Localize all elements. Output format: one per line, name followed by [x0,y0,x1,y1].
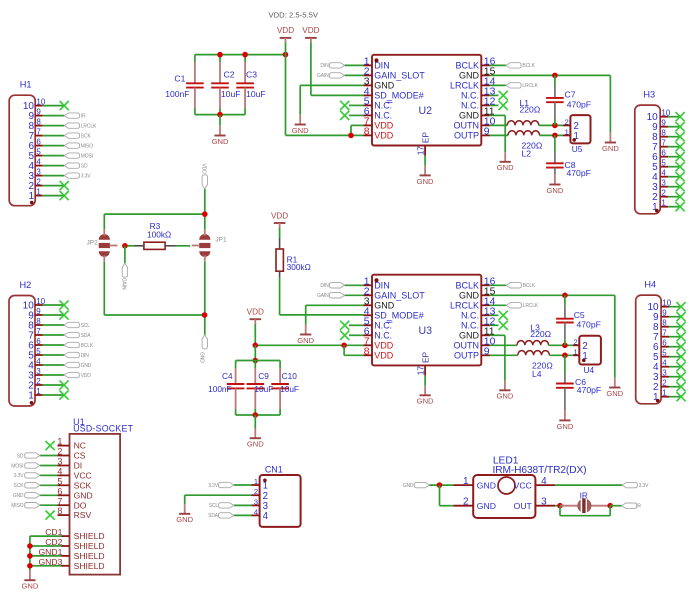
svg-text:VDD: 2.5-5.5V: VDD: 2.5-5.5V [269,10,319,19]
svg-text:6: 6 [36,138,41,147]
svg-text:GAIN: GAIN [317,73,329,79]
svg-text:DIN: DIN [374,61,390,71]
svg-text:100nF: 100nF [165,89,189,99]
svg-text:5: 5 [36,148,41,157]
svg-text:4: 4 [662,359,667,368]
svg-text:4: 4 [263,511,269,522]
svg-text:3: 3 [662,369,667,378]
svg-text:300kΩ: 300kΩ [287,262,311,272]
svg-text:1: 1 [574,347,578,356]
svg-text:DI: DI [74,461,83,471]
svg-text:6: 6 [661,149,666,158]
svg-text:GND: GND [74,490,93,500]
svg-text:220Ω: 220Ω [520,105,541,115]
svg-text:8: 8 [364,126,370,137]
svg-text:7: 7 [57,496,62,506]
svg-text:6: 6 [662,339,667,348]
svg-text:BCLK: BCLK [455,281,479,291]
svg-text:2: 2 [574,337,578,346]
svg-text:GAIN_SLOT: GAIN_SLOT [374,291,425,301]
svg-text:4: 4 [57,467,62,477]
svg-text:BCLK: BCLK [81,343,94,349]
svg-text:U2: U2 [419,105,433,117]
svg-text:9: 9 [36,108,41,117]
svg-text:4: 4 [36,357,41,366]
svg-text:SDA: SDA [208,513,219,519]
svg-text:470pF: 470pF [567,99,591,109]
svg-text:GND: GND [496,392,513,401]
svg-text:SCL: SCL [81,323,91,329]
svg-text:GND: GND [374,81,395,91]
svg-text:GND1: GND1 [39,547,63,557]
svg-text:SD_MODE#: SD_MODE# [374,91,424,101]
svg-text:7: 7 [36,128,41,137]
svg-text:OUTN: OUTN [454,341,480,351]
svg-text:NC: NC [74,441,86,451]
svg-text:4: 4 [36,158,41,167]
svg-text:SHIELD: SHIELD [74,551,105,561]
svg-text:GND: GND [13,493,24,499]
svg-text:8: 8 [57,506,62,516]
svg-text:GND3: GND3 [39,557,63,567]
svg-text:C9: C9 [258,371,269,381]
svg-text:100kΩ: 100kΩ [147,229,171,239]
svg-text:GND: GND [459,71,480,81]
svg-text:SCL: SCL [209,503,219,509]
svg-text:C2: C2 [224,70,235,80]
svg-text:N.C.: N.C. [374,331,392,341]
svg-text:N.C.: N.C. [461,101,479,111]
svg-text:7: 7 [662,329,667,338]
svg-text:VDD: VDD [247,308,264,317]
svg-text:GND: GND [606,389,623,398]
svg-text:SCK: SCK [14,483,25,489]
svg-text:9: 9 [484,126,490,137]
svg-text:10uF: 10uF [221,89,241,99]
svg-text:H1: H1 [20,80,32,90]
svg-text:VCC: VCC [74,471,92,481]
svg-text:BCLK: BCLK [455,61,479,71]
svg-text:C3: C3 [246,70,257,80]
svg-text:GND: GND [477,480,496,490]
svg-text:2: 2 [36,377,41,386]
svg-text:GND: GND [374,301,395,311]
svg-text:3: 3 [36,168,41,177]
svg-text:1: 1 [254,477,258,486]
svg-text:220Ω: 220Ω [530,329,551,339]
svg-text:RSV: RSV [74,510,92,520]
svg-text:OUTN: OUTN [454,121,480,131]
svg-text:CS: CS [74,451,86,461]
svg-text:3: 3 [541,497,547,508]
svg-text:JP2: JP2 [86,239,98,246]
svg-text:3: 3 [254,497,258,506]
svg-text:9: 9 [661,119,666,128]
svg-text:H3: H3 [643,90,655,100]
svg-text:CD1: CD1 [45,527,62,537]
svg-text:7: 7 [661,139,666,148]
svg-text:5: 5 [36,347,41,356]
svg-text:2: 2 [57,447,62,457]
svg-text:8: 8 [661,129,666,138]
svg-text:DO: DO [74,500,87,510]
svg-text:GND: GND [292,126,309,135]
svg-text:5: 5 [661,159,666,168]
svg-text:MOSI: MOSI [81,154,93,160]
svg-text:MOSI: MOSI [11,463,23,469]
svg-text:LRCLK: LRCLK [450,81,479,91]
svg-text:CD2: CD2 [45,537,62,547]
svg-text:H4: H4 [644,280,656,290]
svg-text:EP: EP [420,351,430,363]
svg-text:IR: IR [636,504,641,510]
svg-text:BCLK: BCLK [522,63,535,69]
svg-text:GND: GND [497,163,514,172]
svg-text:JP1: JP1 [215,237,227,244]
svg-text:VDD: VDD [200,164,206,175]
svg-text:SHIELD: SHIELD [74,531,105,541]
svg-text:SCK: SCK [81,134,92,140]
svg-text:N.C.: N.C. [374,111,392,121]
svg-text:100nF: 100nF [208,384,232,394]
svg-text:2: 2 [565,117,569,126]
svg-text:GND: GND [477,501,496,511]
svg-text:LRCLK: LRCLK [522,83,538,89]
svg-text:1: 1 [463,476,469,487]
svg-text:U3: U3 [419,325,433,337]
svg-text:3.3V: 3.3V [639,483,650,489]
svg-text:2: 2 [661,189,666,198]
svg-text:4: 4 [541,476,547,487]
svg-text:3: 3 [57,457,62,467]
svg-text:1: 1 [36,387,41,396]
svg-text:DIN: DIN [320,63,329,69]
svg-text:GND: GND [176,515,193,524]
svg-text:VDD: VDD [277,26,294,35]
svg-text:470pF: 470pF [577,385,601,395]
svg-text:EP: EP [420,132,430,144]
svg-text:H2: H2 [20,280,32,290]
svg-text:SHIELD: SHIELD [74,561,105,571]
svg-text:N.C.: N.C. [461,321,479,331]
svg-text:OUT: OUT [514,501,533,511]
svg-text:3.3V: 3.3V [208,483,219,489]
svg-text:1: 1 [28,191,34,202]
svg-text:GND: GND [417,397,434,406]
svg-text:8: 8 [36,118,41,127]
svg-text:6: 6 [57,486,62,496]
svg-text:1: 1 [57,437,62,447]
svg-text:GAIN: GAIN [120,278,126,290]
svg-text:9: 9 [36,307,41,316]
svg-text:2: 2 [254,487,258,496]
svg-text:3.3V: 3.3V [14,473,25,479]
svg-text:2: 2 [463,497,469,508]
svg-text:SCK: SCK [74,480,92,490]
svg-text:470pF: 470pF [577,319,601,329]
svg-text:VDD: VDD [81,373,92,379]
svg-text:470pF: 470pF [567,168,591,178]
svg-text:BCLK: BCLK [523,283,536,289]
svg-text:LRCLK: LRCLK [450,301,479,311]
svg-text:GND: GND [297,336,314,345]
svg-text:SHIELD: SHIELD [74,541,105,551]
svg-text:C1: C1 [174,74,185,84]
svg-text:VDD: VDD [302,26,319,35]
svg-text:LRCLK: LRCLK [81,124,97,130]
svg-text:4: 4 [254,507,258,516]
svg-text:17: 17 [415,366,425,376]
svg-text:17: 17 [415,146,425,156]
svg-text:U4: U4 [584,365,595,375]
svg-text:GND: GND [459,111,480,121]
svg-text:1: 1 [28,390,34,401]
svg-text:GND: GND [459,331,480,341]
svg-text:GAIN_SLOT: GAIN_SLOT [374,71,425,81]
svg-text:IR: IR [81,114,86,120]
svg-text:7: 7 [36,327,41,336]
svg-text:GAIN: GAIN [317,293,329,299]
svg-text:GND: GND [556,422,573,431]
svg-text:GND: GND [21,582,38,591]
svg-text:VDD: VDD [374,341,394,351]
svg-text:2: 2 [662,379,667,388]
svg-text:SDA: SDA [81,333,92,339]
svg-text:1: 1 [565,127,569,136]
svg-text:N.C.: N.C. [461,91,479,101]
svg-text:CN1: CN1 [265,465,283,475]
svg-text:N.C.: N.C. [461,311,479,321]
svg-text:1: 1 [661,199,666,208]
svg-text:DIN: DIN [374,281,390,291]
svg-text:GND: GND [417,177,434,186]
svg-text:10uF: 10uF [246,89,266,99]
svg-text:SD: SD [81,164,88,170]
svg-text:MISO: MISO [81,144,93,150]
svg-text:1: 1 [36,188,41,197]
svg-text:GND: GND [403,483,414,489]
svg-text:3: 3 [661,179,666,188]
svg-text:C7: C7 [565,89,576,99]
svg-text:9: 9 [484,346,490,357]
svg-text:VDD: VDD [374,131,394,141]
svg-text:9: 9 [662,309,667,318]
svg-text:8: 8 [662,319,667,328]
svg-text:OUTP: OUTP [454,351,479,361]
svg-text:C4: C4 [222,371,233,381]
svg-text:GND: GND [198,352,204,363]
svg-text:LRCLK: LRCLK [523,303,539,309]
svg-text:2: 2 [36,178,41,187]
svg-text:GND: GND [247,440,264,449]
svg-text:8: 8 [364,346,370,357]
svg-text:DIN: DIN [81,353,90,359]
svg-text:VDD: VDD [271,211,288,220]
svg-text:3: 3 [36,367,41,376]
svg-text:L2: L2 [522,149,532,159]
svg-text:VDD: VDD [374,121,394,131]
svg-text:10uF: 10uF [254,384,273,394]
svg-text:3.3V: 3.3V [81,174,92,180]
svg-text:GND: GND [602,144,619,153]
svg-text:6: 6 [36,337,41,346]
svg-text:USD-SOCKET: USD-SOCKET [73,424,134,434]
svg-text:4: 4 [661,169,666,178]
svg-text:GND: GND [81,363,92,369]
svg-text:1: 1 [662,389,667,398]
svg-text:GND: GND [546,186,563,195]
svg-text:L4: L4 [532,369,542,379]
svg-text:MISO: MISO [11,503,23,509]
svg-text:SD_MODE#: SD_MODE# [374,311,424,321]
svg-text:U5: U5 [572,144,583,154]
svg-text:IR: IR [580,491,588,501]
svg-text:GND: GND [459,291,480,301]
svg-text:OUTP: OUTP [454,131,479,141]
svg-text:GND: GND [212,137,229,146]
svg-text:VDD: VDD [374,351,394,361]
svg-text:C10: C10 [282,371,298,381]
svg-text:VCC: VCC [514,480,532,490]
svg-text:DIN: DIN [320,283,329,289]
svg-text:10uF: 10uF [280,384,299,394]
svg-text:IRM-H638T/TR2(DX): IRM-H638T/TR2(DX) [493,465,587,476]
svg-text:SD: SD [17,453,24,459]
svg-text:5: 5 [57,476,62,486]
svg-text:5: 5 [662,349,667,358]
svg-text:8: 8 [36,317,41,326]
